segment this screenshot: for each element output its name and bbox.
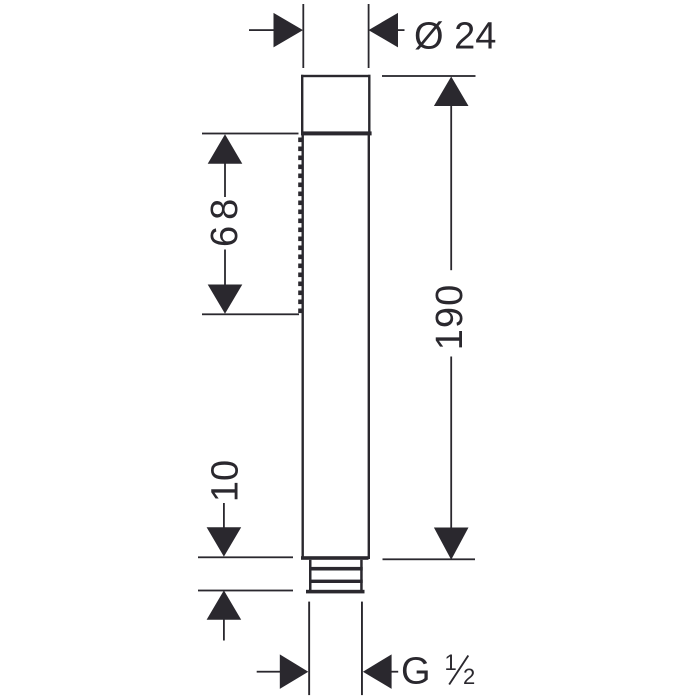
G1/2 right arrow stem	[391, 671, 398, 673]
68 dimension line upper segment	[224, 163, 226, 197]
10 up arrowhead below	[207, 590, 242, 619]
68 bottom arrowhead (down)	[208, 285, 243, 314]
Ø24 right arrow stem	[397, 29, 405, 31]
G1/2 right extension line	[361, 602, 363, 696]
G1/2 left arrowhead	[280, 654, 309, 689]
thread line 1	[309, 567, 363, 571]
spray face dot strip	[298, 138, 302, 314]
body left edge	[302, 135, 304, 559]
body right edge	[368, 135, 370, 559]
68 top arrowhead (up)	[208, 134, 243, 164]
svg-text:1: 1	[445, 650, 457, 675]
thread connector right edge	[360, 560, 363, 591]
190 top extension line	[382, 75, 476, 77]
shower head cap right edge	[368, 75, 370, 135]
svg-text:G: G	[401, 651, 431, 693]
label 1/2 fraction slash	[449, 656, 468, 685]
190 bottom arrowhead (down)	[434, 528, 469, 560]
thread connector left edge	[309, 560, 312, 591]
body bottom thick edge	[301, 556, 369, 560]
thread line 2	[309, 580, 363, 583]
190 dimension line lower segment	[450, 357, 452, 528]
shower head cap thick bottom line	[301, 131, 372, 135]
svg-text:68: 68	[204, 193, 246, 247]
G1/2 left arrow stem	[257, 671, 281, 673]
10 upper extension line (body bottom level)	[198, 556, 293, 558]
10 up arrow stem	[223, 619, 225, 641]
G1/2 left extension line	[308, 602, 310, 696]
Ø24 left arrowhead	[274, 13, 304, 48]
extension line left of Ø24	[302, 4, 304, 68]
thread connector bottom edge	[306, 590, 365, 594]
svg-text:10: 10	[205, 460, 247, 502]
190 dimension line upper segment	[450, 105, 452, 270]
190 bottom extension line	[383, 558, 476, 560]
10 lower extension line (connector bottom level)	[198, 590, 293, 592]
G1/2 right arrowhead	[363, 654, 392, 689]
svg-text:2: 2	[463, 664, 475, 689]
extension line right of Ø24	[368, 4, 370, 68]
shower head cap top edge	[301, 75, 371, 77]
10 down arrowhead	[207, 527, 242, 556]
shower head cap left edge	[301, 75, 303, 135]
190 top arrowhead (up)	[434, 77, 469, 107]
10 pointer line	[223, 503, 225, 528]
68 bottom extension line	[202, 313, 299, 315]
Ø24 right arrowhead	[369, 13, 399, 48]
svg-text:Ø 24: Ø 24	[414, 15, 496, 57]
68 dimension line lower segment	[224, 250, 226, 286]
svg-text:190: 190	[429, 284, 471, 350]
Ø24 left arrow stem	[249, 29, 274, 31]
68 top extension line	[202, 133, 299, 135]
